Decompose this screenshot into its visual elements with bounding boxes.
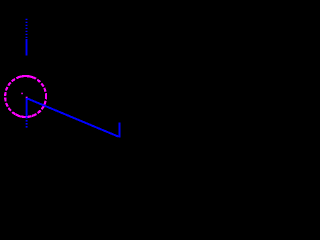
wire: dotted blue vertical continuation below circle bbox=[26, 117, 28, 128]
wire: blue vertical tick at diagonal end bbox=[118, 122, 120, 137]
node: magenta vertex pixel at line junction bbox=[26, 97, 28, 99]
node: circle top arc (nearly solid band) bbox=[17, 76, 35, 78]
wire: dotted blue vertical trace (top, sparse dots) bbox=[26, 19, 28, 39]
node: circle bottom arc (nearly solid band) bbox=[16, 114, 36, 117]
node: dashed magenta circle bbox=[5, 76, 46, 117]
wire: blue vertical trace (top, denser lower part) bbox=[26, 39, 28, 56]
wire: blue diagonal line from circle center to lower right bbox=[27, 98, 119, 136]
node: magenta dot inside circle bbox=[21, 93, 23, 95]
wire: solid blue vertical line from circle center down bbox=[26, 98, 28, 117]
